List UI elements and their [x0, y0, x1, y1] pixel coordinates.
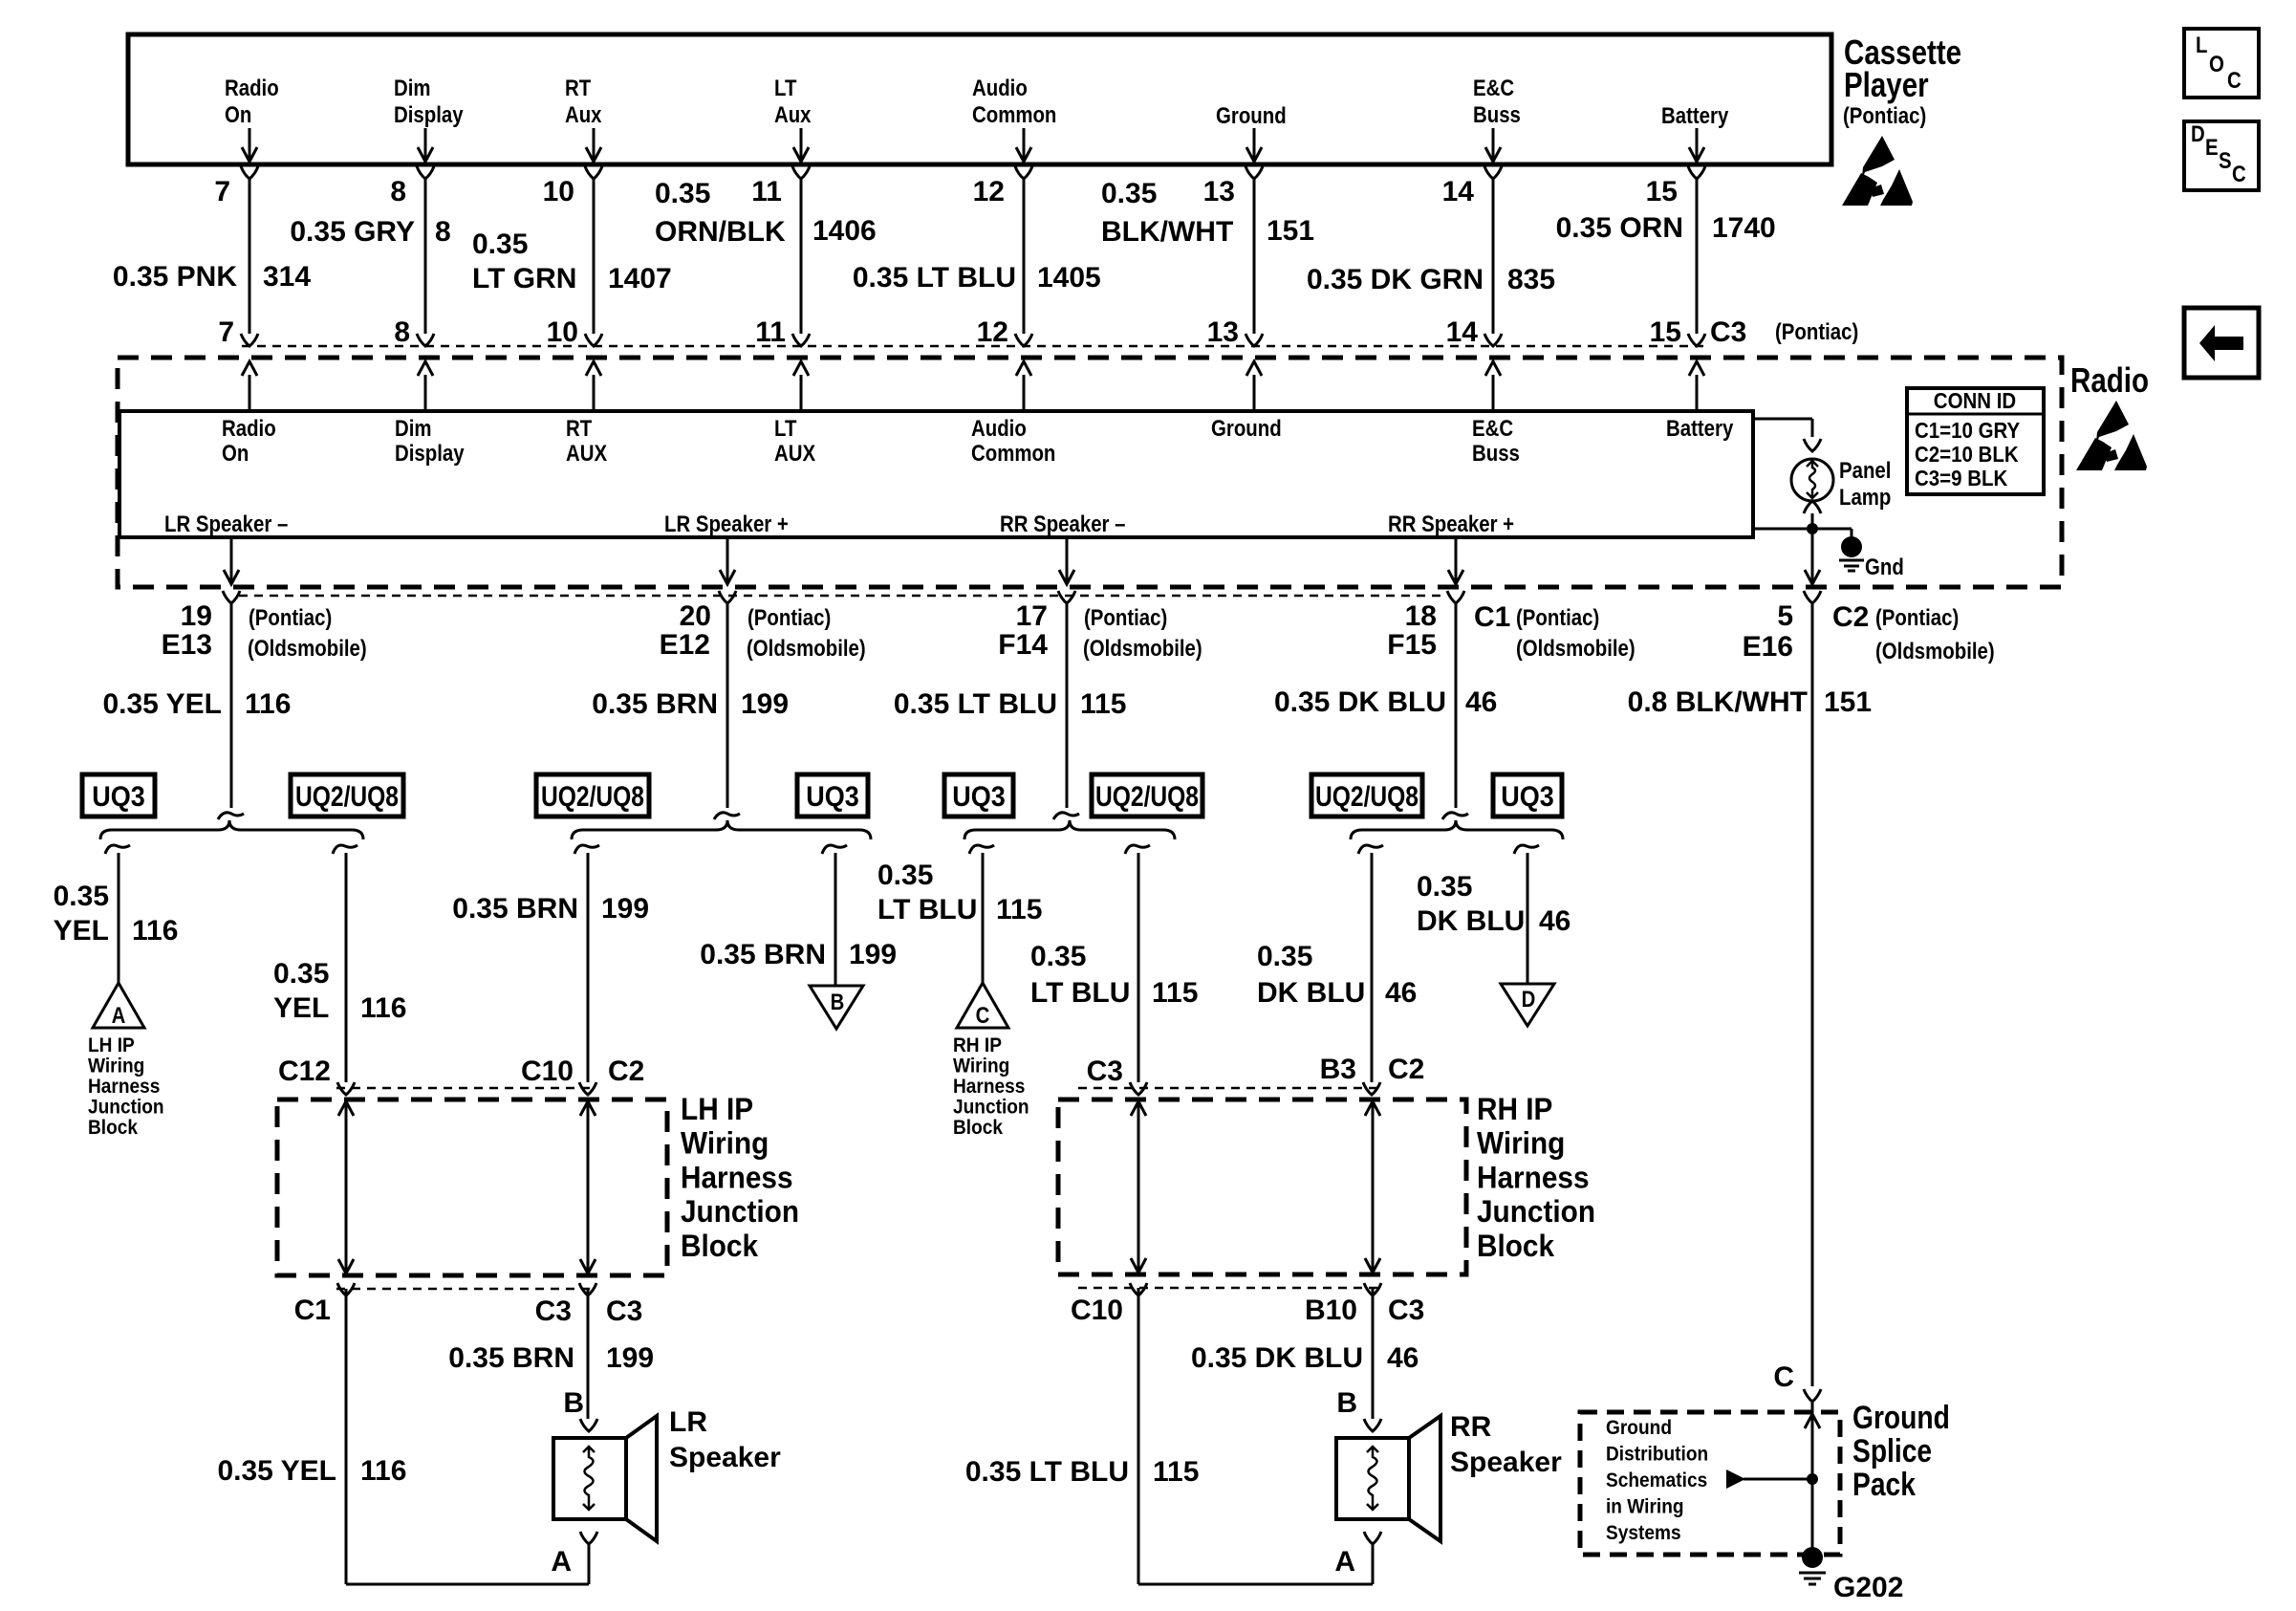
svg-text:LR Speaker +: LR Speaker + — [664, 512, 789, 537]
svg-text:116: 116 — [360, 1455, 406, 1487]
svg-text:0.35 DK BLU: 0.35 DK BLU — [1274, 686, 1446, 718]
svg-text:1407: 1407 — [608, 263, 672, 294]
svg-text:14: 14 — [1442, 176, 1475, 207]
svg-text:E12: E12 — [660, 629, 710, 661]
svg-text:in Wiring: in Wiring — [1606, 1496, 1684, 1518]
svg-text:Wiring: Wiring — [1477, 1126, 1565, 1161]
svg-text:UQ3: UQ3 — [92, 781, 145, 813]
svg-text:Junction: Junction — [953, 1097, 1029, 1119]
svg-text:0.35 YEL: 0.35 YEL — [102, 688, 222, 720]
svg-text:YEL: YEL — [273, 992, 329, 1024]
svg-text:C3: C3 — [606, 1295, 642, 1327]
svg-text:(Oldsmobile): (Oldsmobile) — [1083, 636, 1202, 662]
svg-text:8: 8 — [390, 176, 406, 207]
svg-text:Audio: Audio — [971, 416, 1027, 442]
svg-text:0.35: 0.35 — [54, 881, 109, 912]
svg-text:46: 46 — [1385, 977, 1417, 1009]
svg-text:Ground: Ground — [1852, 1400, 1950, 1436]
svg-text:(Pontiac): (Pontiac) — [1084, 605, 1167, 631]
svg-text:B3: B3 — [1320, 1054, 1356, 1085]
svg-text:5: 5 — [1777, 600, 1793, 632]
svg-text:RR Speaker –: RR Speaker – — [1000, 512, 1126, 537]
svg-text:10: 10 — [543, 176, 574, 207]
svg-text:0.35 DK GRN: 0.35 DK GRN — [1307, 264, 1484, 295]
svg-text:Junction: Junction — [681, 1194, 799, 1229]
svg-text:199: 199 — [601, 893, 649, 925]
svg-text:116: 116 — [132, 915, 178, 947]
svg-text:AUX: AUX — [774, 441, 815, 467]
svg-text:15: 15 — [1650, 316, 1681, 348]
svg-text:E16: E16 — [1743, 631, 1793, 663]
svg-text:YEL: YEL — [54, 915, 109, 947]
svg-text:7: 7 — [214, 176, 230, 207]
svg-text:C3: C3 — [1710, 316, 1746, 348]
svg-text:C2: C2 — [608, 1056, 644, 1087]
svg-text:Audio: Audio — [972, 76, 1028, 101]
svg-text:0.35 BRN: 0.35 BRN — [448, 1342, 574, 1374]
svg-text:(Pontiac): (Pontiac) — [1775, 319, 1858, 345]
svg-text:(Oldsmobile): (Oldsmobile) — [747, 636, 866, 662]
svg-text:LR: LR — [669, 1406, 707, 1438]
svg-text:Wiring: Wiring — [88, 1056, 144, 1078]
svg-text:199: 199 — [849, 939, 897, 970]
svg-text:0.35: 0.35 — [472, 229, 528, 260]
svg-text:E: E — [2205, 135, 2219, 161]
svg-text:E&C: E&C — [1472, 416, 1513, 442]
svg-text:Junction: Junction — [1477, 1194, 1595, 1229]
svg-text:Display: Display — [395, 441, 465, 467]
svg-text:Block: Block — [1477, 1229, 1554, 1263]
svg-text:UQ2/UQ8: UQ2/UQ8 — [1095, 781, 1199, 813]
svg-text:Ground: Ground — [1211, 416, 1282, 442]
svg-text:LT BLU: LT BLU — [877, 894, 977, 925]
svg-text:18: 18 — [1405, 600, 1437, 632]
svg-text:14: 14 — [1446, 316, 1479, 348]
svg-text:Radio: Radio — [225, 76, 279, 101]
svg-text:0.35 BRN: 0.35 BRN — [700, 939, 826, 970]
svg-text:LR Speaker –: LR Speaker – — [164, 512, 288, 537]
svg-text:DK BLU: DK BLU — [1417, 905, 1525, 937]
svg-text:Common: Common — [971, 441, 1055, 467]
svg-text:A: A — [112, 1003, 126, 1029]
svg-text:Wiring: Wiring — [953, 1056, 1009, 1078]
svg-text:C3=9 BLK: C3=9 BLK — [1915, 466, 2008, 490]
svg-text:LH IP: LH IP — [88, 1034, 135, 1056]
svg-text:Junction: Junction — [88, 1097, 164, 1119]
svg-text:151: 151 — [1267, 215, 1314, 247]
svg-text:Dim: Dim — [394, 76, 431, 101]
svg-text:115: 115 — [1153, 1456, 1199, 1488]
svg-text:Buss: Buss — [1472, 441, 1520, 467]
svg-text:15: 15 — [1646, 176, 1678, 207]
svg-text:LT: LT — [774, 76, 797, 101]
svg-text:C3: C3 — [535, 1295, 572, 1327]
svg-text:Aux: Aux — [774, 102, 812, 128]
svg-text:C12: C12 — [278, 1056, 331, 1087]
svg-text:RH IP: RH IP — [1477, 1092, 1552, 1126]
svg-text:115: 115 — [1152, 977, 1198, 1009]
svg-text:Harness: Harness — [681, 1160, 793, 1194]
svg-text:(Oldsmobile): (Oldsmobile) — [248, 636, 367, 662]
svg-text:B10: B10 — [1305, 1295, 1357, 1326]
svg-text:L: L — [2196, 33, 2208, 58]
svg-text:199: 199 — [741, 688, 789, 720]
svg-text:151: 151 — [1824, 686, 1872, 718]
svg-text:12: 12 — [973, 176, 1005, 207]
svg-text:B: B — [563, 1387, 584, 1419]
svg-text:C: C — [976, 1003, 990, 1029]
svg-text:LT: LT — [774, 416, 797, 442]
svg-text:RT: RT — [566, 416, 592, 442]
svg-text:Radio: Radio — [2070, 360, 2149, 400]
svg-text:835: 835 — [1507, 264, 1555, 295]
svg-text:C1: C1 — [1474, 601, 1510, 633]
svg-text:12: 12 — [977, 316, 1008, 348]
svg-text:1405: 1405 — [1037, 262, 1101, 294]
svg-text:BLK/WHT: BLK/WHT — [1101, 216, 1233, 248]
svg-text:0.35 YEL: 0.35 YEL — [217, 1455, 336, 1487]
svg-text:Harness: Harness — [1477, 1160, 1590, 1194]
svg-text:10: 10 — [547, 316, 578, 348]
svg-text:DK BLU: DK BLU — [1257, 977, 1365, 1009]
svg-text:Panel: Panel — [1839, 458, 1891, 484]
svg-text:46: 46 — [1465, 686, 1497, 718]
svg-text:B: B — [1336, 1387, 1357, 1419]
svg-text:0.35: 0.35 — [1030, 941, 1086, 972]
svg-text:199: 199 — [606, 1342, 654, 1374]
svg-text:C2: C2 — [1832, 601, 1869, 633]
svg-text:46: 46 — [1539, 905, 1570, 937]
svg-text:UQ3: UQ3 — [952, 781, 1006, 813]
svg-text:Speaker: Speaker — [1450, 1447, 1562, 1478]
svg-text:Player: Player — [1844, 65, 1929, 104]
svg-text:0.35 BRN: 0.35 BRN — [452, 893, 578, 925]
svg-text:0.35 GRY: 0.35 GRY — [290, 216, 415, 248]
svg-text:0.35 DK BLU: 0.35 DK BLU — [1191, 1342, 1363, 1374]
svg-text:S: S — [2219, 148, 2232, 174]
svg-text:Lamp: Lamp — [1839, 485, 1891, 511]
svg-text:Systems: Systems — [1606, 1522, 1681, 1544]
svg-text:11: 11 — [751, 176, 782, 207]
svg-text:(Pontiac): (Pontiac) — [1843, 103, 1926, 129]
svg-text:Buss: Buss — [1473, 102, 1521, 128]
svg-text:On: On — [222, 441, 249, 467]
svg-text:Ground: Ground — [1606, 1417, 1672, 1439]
svg-text:RH IP: RH IP — [953, 1034, 1002, 1056]
svg-text:46: 46 — [1387, 1342, 1419, 1374]
svg-text:C: C — [1773, 1361, 1794, 1393]
svg-text:Pack: Pack — [1852, 1467, 1916, 1503]
svg-text:0.35: 0.35 — [1101, 178, 1157, 209]
svg-text:C: C — [2227, 68, 2242, 94]
svg-text:UQ2/UQ8: UQ2/UQ8 — [295, 781, 399, 813]
svg-text:UQ3: UQ3 — [1501, 781, 1554, 813]
svg-text:1740: 1740 — [1712, 212, 1776, 244]
svg-text:Block: Block — [88, 1117, 138, 1139]
svg-text:D: D — [2191, 121, 2205, 147]
svg-text:E13: E13 — [162, 629, 212, 661]
svg-text:C10: C10 — [1071, 1295, 1123, 1326]
svg-text:115: 115 — [1080, 688, 1126, 720]
svg-text:UQ2/UQ8: UQ2/UQ8 — [1315, 781, 1419, 813]
svg-text:UQ3: UQ3 — [806, 781, 859, 813]
svg-text:Distribution: Distribution — [1606, 1444, 1708, 1466]
svg-text:Display: Display — [394, 102, 464, 128]
svg-text:Ground: Ground — [1216, 103, 1287, 129]
svg-text:0.35: 0.35 — [1257, 941, 1312, 972]
svg-text:Battery: Battery — [1666, 416, 1734, 442]
svg-text:8: 8 — [394, 316, 410, 348]
svg-text:0.35 ORN: 0.35 ORN — [1556, 212, 1683, 244]
svg-text:19: 19 — [181, 600, 212, 632]
svg-text:Block: Block — [681, 1229, 758, 1263]
svg-text:Speaker: Speaker — [669, 1442, 781, 1473]
svg-text:D: D — [1522, 987, 1536, 1012]
svg-text:7: 7 — [218, 316, 234, 348]
svg-text:(Pontiac): (Pontiac) — [1516, 605, 1599, 631]
svg-text:UQ2/UQ8: UQ2/UQ8 — [541, 781, 644, 813]
svg-text:8: 8 — [435, 216, 451, 248]
svg-text:Block: Block — [953, 1117, 1003, 1139]
svg-text:Battery: Battery — [1661, 103, 1729, 129]
svg-text:1406: 1406 — [812, 215, 877, 247]
svg-text:AUX: AUX — [566, 441, 607, 467]
svg-text:(Pontiac): (Pontiac) — [1875, 605, 1959, 631]
svg-text:0.35: 0.35 — [655, 178, 710, 209]
svg-text:0.8 BLK/WHT: 0.8 BLK/WHT — [1628, 686, 1808, 718]
svg-text:0.35: 0.35 — [877, 860, 933, 891]
svg-text:0.35 LT BLU: 0.35 LT BLU — [965, 1456, 1129, 1488]
svg-text:(Oldsmobile): (Oldsmobile) — [1516, 636, 1635, 662]
svg-text:Common: Common — [972, 102, 1056, 128]
svg-text:F14: F14 — [998, 629, 1048, 661]
svg-text:115: 115 — [996, 894, 1042, 925]
svg-text:E&C: E&C — [1473, 76, 1514, 101]
svg-text:C1=10 GRY: C1=10 GRY — [1915, 418, 2020, 443]
svg-text:Radio: Radio — [222, 416, 276, 442]
svg-text:C3: C3 — [1388, 1295, 1424, 1326]
svg-text:0.35 BRN: 0.35 BRN — [592, 688, 718, 720]
svg-text:C3: C3 — [1087, 1056, 1123, 1087]
svg-text:C: C — [2232, 162, 2246, 187]
svg-text:LT GRN: LT GRN — [472, 263, 576, 294]
svg-text:314: 314 — [263, 261, 311, 293]
svg-text:Harness: Harness — [88, 1076, 160, 1098]
svg-text:Schematics: Schematics — [1606, 1469, 1707, 1491]
svg-text:17: 17 — [1016, 600, 1048, 632]
svg-text:(Oldsmobile): (Oldsmobile) — [1875, 639, 1995, 664]
svg-text:116: 116 — [360, 992, 406, 1024]
svg-text:Gnd: Gnd — [1865, 555, 1904, 580]
svg-text:13: 13 — [1203, 176, 1235, 207]
svg-text:B: B — [831, 990, 845, 1015]
svg-text:RR: RR — [1450, 1411, 1492, 1443]
svg-text:LT BLU: LT BLU — [1030, 977, 1130, 1009]
svg-text:(Pontiac): (Pontiac) — [249, 605, 332, 631]
svg-text:C2: C2 — [1388, 1054, 1424, 1085]
svg-text:C1: C1 — [294, 1295, 331, 1326]
svg-text:(Pontiac): (Pontiac) — [747, 605, 831, 631]
svg-text:Harness: Harness — [953, 1076, 1025, 1098]
svg-text:20: 20 — [680, 600, 711, 632]
svg-text:A: A — [1334, 1546, 1355, 1578]
svg-text:116: 116 — [245, 688, 291, 720]
svg-text:CONN ID: CONN ID — [1934, 388, 2016, 413]
svg-text:0.35 LT BLU: 0.35 LT BLU — [853, 262, 1016, 294]
svg-text:Wiring: Wiring — [681, 1126, 769, 1161]
svg-text:RR Speaker +: RR Speaker + — [1388, 512, 1514, 537]
svg-text:O: O — [2209, 52, 2224, 77]
svg-text:C10: C10 — [521, 1056, 574, 1087]
svg-text:11: 11 — [755, 316, 786, 348]
svg-text:0.35: 0.35 — [273, 958, 329, 990]
svg-text:C2=10 BLK: C2=10 BLK — [1915, 442, 2019, 467]
svg-text:LH IP: LH IP — [681, 1092, 753, 1126]
svg-text:On: On — [225, 102, 251, 128]
svg-text:0.35 LT BLU: 0.35 LT BLU — [894, 688, 1057, 720]
svg-text:Dim: Dim — [395, 416, 432, 442]
svg-text:Aux: Aux — [565, 102, 602, 128]
svg-text:13: 13 — [1207, 316, 1239, 348]
svg-text:ORN/BLK: ORN/BLK — [655, 216, 786, 248]
svg-text:0.35: 0.35 — [1417, 871, 1472, 903]
svg-text:A: A — [551, 1546, 572, 1578]
svg-text:RT: RT — [565, 76, 591, 101]
svg-text:Splice: Splice — [1852, 1433, 1932, 1469]
svg-text:F15: F15 — [1387, 629, 1437, 661]
svg-text:0.35 PNK: 0.35 PNK — [113, 261, 237, 293]
svg-text:G202: G202 — [1833, 1572, 1903, 1603]
